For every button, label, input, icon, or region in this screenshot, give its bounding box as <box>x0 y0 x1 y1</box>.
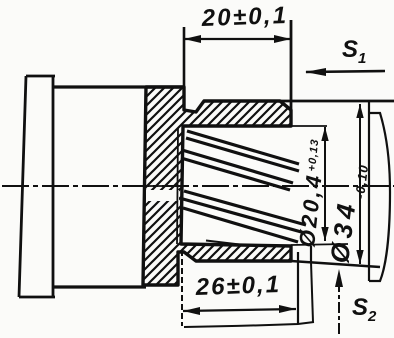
svg-text:20±0,1: 20±0,1 <box>200 2 288 32</box>
svg-text:26±0,1: 26±0,1 <box>194 271 281 301</box>
